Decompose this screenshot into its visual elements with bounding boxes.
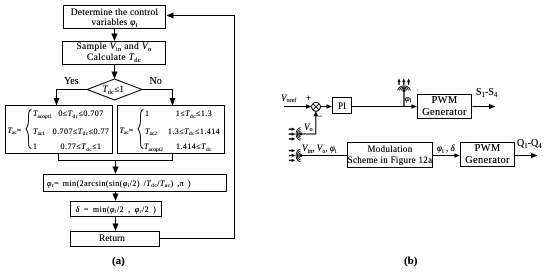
label: (b): [404, 255, 417, 267]
label: Q1-Q4: [517, 138, 542, 149]
label: right row1 col2: [164, 109, 224, 118]
wire Voref to summing junction: [284, 106, 306, 108]
box: PI: [332, 97, 352, 114]
arrowhead Q1-Q4: [531, 153, 538, 158]
arrowhead into delta box: [112, 194, 118, 202]
arrowhead into PWM generator 2: [455, 153, 461, 158]
label: minus sign: [318, 111, 323, 121]
sensor symbol phi_i on PI output: [397, 78, 410, 106]
label: Voref: [281, 93, 296, 103]
decision diamond Tdc<=1: [87, 79, 142, 100]
label: right row1 col1: [145, 109, 149, 118]
feedback wire return to top box: [160, 16, 235, 239]
box: PWM generator 2: [460, 142, 515, 167]
wire modulation box to PWM generator 2: [433, 155, 455, 157]
label: left row3 col2: [52, 142, 110, 151]
wire merge down to phi box: [115, 161, 117, 169]
arrowhead into return box: [112, 224, 118, 232]
arrowhead S1-S4: [489, 104, 496, 109]
sensor symbol Vin Vo phi_i sample: [289, 149, 303, 162]
sensor symbol Vo sample: [289, 128, 303, 141]
wire PI to PWM generator 1: [352, 106, 413, 108]
label: plus sign: [306, 93, 311, 103]
label: phi_i delta: [437, 143, 455, 153]
brace right box: [138, 110, 144, 149]
label: S1-S4: [476, 87, 497, 98]
arrowhead Yes into left box: [53, 98, 59, 106]
box: PWM generator 1: [417, 94, 472, 119]
label: right row3 col1: [144, 142, 163, 151]
label: left row1 col2: [52, 109, 110, 118]
label: Vo: [304, 122, 313, 132]
label: (a): [112, 255, 125, 267]
arrowhead No into right box: [169, 98, 175, 106]
label: Tac= right: [120, 126, 134, 135]
wire Vo to summing junction: [302, 116, 316, 134]
box: Tac piecewise left: [5, 105, 113, 154]
arrowhead Vo into summing junction: [314, 111, 319, 116]
label: No: [150, 76, 162, 87]
label: Tac= left: [8, 126, 22, 135]
wire summing junction to PI: [320, 106, 327, 108]
box: delta formula: [70, 201, 162, 217]
arrowhead into summing junction: [306, 104, 312, 109]
label: left row2 col1: [33, 127, 45, 136]
box: Tac piecewise right: [117, 105, 225, 154]
wire phi box to delta box: [115, 192, 117, 197]
wire box1 to box2: [114, 29, 116, 36]
arrowhead into PI: [327, 104, 333, 109]
label: right row2 col1: [145, 127, 157, 136]
arrowhead into box2: [111, 34, 117, 42]
box: Determine the control variables: [63, 5, 166, 29]
arrowhead feedback into top box: [167, 12, 174, 18]
label: left row3 col1: [33, 142, 37, 151]
label: left row1 col1: [33, 109, 52, 118]
label: right row3 col2: [164, 142, 224, 151]
wire PWM generator 2 output Q1-Q4: [515, 155, 532, 157]
wire No branch: [142, 90, 173, 101]
arrowhead into phi box: [112, 167, 118, 175]
wire Yes branch: [57, 90, 88, 101]
label: diamond condition: [103, 84, 125, 94]
label: Yes: [64, 76, 79, 87]
box: Modulation Scheme: [347, 142, 433, 168]
label: left row2 col2: [52, 127, 110, 136]
wire merge from left box: [59, 154, 173, 161]
summing junction X: [313, 104, 319, 110]
box: Sample and Calculate: [62, 41, 166, 65]
label: Vin Vo phi_i: [302, 143, 337, 153]
label: phi_i on wire: [405, 93, 411, 103]
brace left box: [26, 110, 32, 149]
wire sample to modulation box: [302, 155, 347, 157]
label: right row2 col2: [164, 127, 224, 136]
wire box2 to diamond: [114, 65, 116, 74]
wire delta box to return box: [115, 217, 117, 226]
box: phi_r formula: [43, 174, 227, 192]
box: Return: [70, 231, 160, 247]
arrowhead into PWM generator 1: [412, 104, 418, 109]
summing junction circle: [312, 102, 321, 111]
arrowhead into diamond: [111, 72, 117, 80]
wire PWM generator 1 output S1-S4: [473, 106, 491, 108]
